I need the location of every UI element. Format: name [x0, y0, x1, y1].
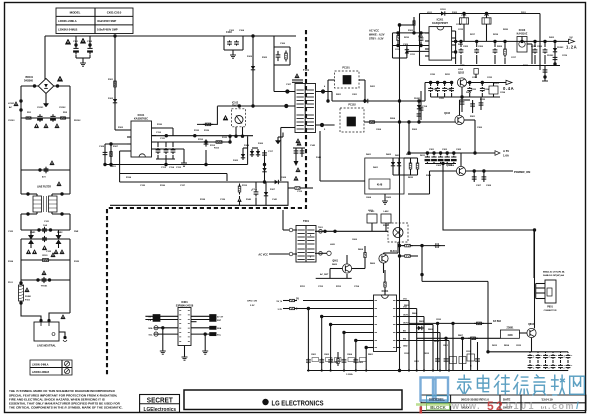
svg-text:ZD201: ZD201 [414, 98, 421, 100]
resistor R104 on drop [114, 79, 116, 82]
svg-text:R132: R132 [194, 130, 200, 132]
svg-text:C305: C305 [456, 149, 462, 151]
svg-text:C119: C119 [297, 191, 303, 193]
transistor Q102 [457, 78, 466, 87]
svg-text:F101: F101 [8, 282, 14, 284]
4148 box [369, 179, 390, 189]
T601 sec out2 [315, 252, 327, 254]
wire to inlet neutral [49, 313, 70, 319]
rail POWER_ON [466, 170, 513, 172]
aux resistors right [410, 161, 412, 164]
svg-text:D602: D602 [386, 154, 392, 156]
vert from pin2 [229, 136, 231, 142]
svg-text:L605: L605 [330, 244, 336, 246]
svg-text:CX101: CX101 [37, 107, 44, 109]
diode D201 [362, 100, 370, 102]
svg-text:D4SB60: D4SB60 [24, 79, 34, 82]
svg-text:LIVE NEUTRAL: LIVE NEUTRAL [37, 344, 56, 348]
rail 5V standby [452, 40, 566, 42]
svg-text:L203: L203 [494, 83, 500, 85]
svg-text:C233: C233 [487, 77, 493, 79]
wire Q803 emitter [531, 338, 533, 352]
svg-text:100uF/450V SMP: 100uF/450V SMP [97, 28, 118, 32]
svg-text:CONNECTOR: CONNECTOR [544, 310, 557, 312]
IC601 body [178, 308, 191, 346]
resistor above IC801 [384, 270, 386, 280]
svg-text:R217: R217 [470, 34, 476, 36]
bottom bus [307, 370, 560, 372]
svg-text:C114: C114 [169, 166, 175, 169]
feed network resistors [400, 245, 405, 247]
wire bridge right [54, 85, 70, 87]
svg-text:R101: R101 [108, 79, 114, 81]
wire rail 323 [409, 322, 492, 324]
wire snubber drop [274, 36, 290, 47]
svg-text:F201: F201 [521, 12, 527, 14]
svg-text:C803: C803 [333, 362, 339, 364]
wire IC102 bottom leads [235, 127, 237, 136]
wire ladder row6 [21, 279, 70, 281]
zener D202 [406, 48, 408, 56]
svg-text:ZNR1: ZNR1 [30, 232, 36, 234]
svg-text:D102: D102 [108, 98, 114, 100]
Q102 emitter chain [461, 87, 463, 112]
Q601 emitter ext [383, 263, 385, 273]
svg-text:C301: C301 [429, 149, 435, 151]
svg-text:R603: R603 [406, 154, 412, 156]
svg-text:R136: R136 [160, 185, 166, 187]
IC601 left glyph boxes [153, 315, 160, 318]
svg-text:R139: R139 [204, 130, 210, 132]
svg-text:C221: C221 [439, 98, 445, 100]
right wires IC801 [401, 300, 410, 302]
svg-text:R106: R106 [418, 36, 424, 38]
svg-text:Q102: Q102 [458, 72, 465, 75]
long rail AC_VCC [399, 25, 401, 371]
svg-text:C230: C230 [430, 74, 436, 76]
IC601 wires left top [145, 315, 178, 317]
svg-text:LX101: LX101 [8, 103, 15, 105]
svg-text:GND1: GND1 [110, 166, 117, 168]
comparator IC801 body [374, 295, 397, 352]
svg-text:C113: C113 [161, 167, 167, 169]
pin marks inside IC801 [375, 300, 378, 302]
ground for C101 [82, 58, 84, 60]
wire bridge to rail [44, 36, 46, 79]
svg-text:1.25VA: 1.25VA [346, 373, 353, 376]
svg-text:KA3S0765C: KA3S0765C [134, 118, 148, 121]
diode D103 on drop [114, 97, 116, 105]
svg-text:C605: C605 [386, 197, 392, 199]
series diode on loop top [273, 181, 281, 183]
inductor L201 box [460, 18, 469, 24]
svg-text:C209: C209 [537, 46, 543, 48]
svg-text:R101: R101 [42, 255, 48, 257]
svg-text:C215: C215 [458, 29, 464, 31]
svg-text:R107: R107 [113, 146, 119, 148]
svg-text:LGElectronics: LGElectronics [144, 407, 177, 413]
wire top right rail [420, 13, 541, 15]
svg-text:C810: C810 [436, 319, 442, 321]
IC201 pins left [425, 32, 429, 34]
svg-text:c: c [556, 365, 557, 367]
5V feed resistor pair [287, 300, 290, 302]
aux block box [365, 158, 404, 194]
primary gnd loop [110, 182, 288, 205]
wire gnd long 1 [105, 164, 248, 166]
svg-text:Q601: Q601 [332, 261, 338, 263]
diode D110 vertical [252, 36, 254, 106]
wire ladder row1 [21, 117, 70, 119]
svg-text:C811: C811 [414, 361, 420, 363]
svg-text:c: c [564, 365, 565, 367]
svg-text:R813: R813 [434, 341, 440, 343]
svg-text:R814: R814 [504, 344, 510, 347]
svg-text:F101: F101 [25, 299, 31, 301]
capacitor C1 row1 [39, 114, 41, 116]
svg-text:AC: AC [9, 106, 13, 109]
svg-text:C606: C606 [352, 239, 358, 241]
left wires IC801 [303, 300, 374, 302]
svg-text:C101: C101 [73, 41, 79, 43]
svg-text:WAKE : 6.2V: WAKE : 6.2V [369, 33, 385, 37]
svg-text:.com: .com [548, 401, 575, 411]
resistor above IC801 [384, 293, 386, 295]
svg-text:CKD.C510: CKD.C510 [107, 11, 122, 15]
RST divider [413, 17, 415, 33]
svg-text:R302: R302 [412, 129, 418, 131]
IC601 wires right [191, 315, 210, 317]
rail 0.4A [425, 82, 453, 84]
wire to inlet live [21, 303, 41, 319]
svg-text:Q103: Q103 [444, 112, 451, 115]
svg-text:STBY : 0.3V: STBY : 0.3V [369, 37, 384, 41]
svg-text:R807: R807 [458, 335, 464, 337]
resistor R812 [468, 337, 471, 339]
standby caps bank [460, 41, 462, 47]
wire left drop rail [419, 14, 421, 66]
wire left rail [20, 118, 22, 194]
svg-text:AC VCC: AC VCC [258, 254, 268, 257]
svg-text:5: 5 [487, 399, 494, 413]
RT CT capacitors [156, 141, 173, 143]
loop resistor R108 [239, 184, 241, 187]
svg-text:5V: 5V [569, 36, 572, 40]
IC601 wires left low [154, 327, 178, 329]
svg-text:C704: C704 [354, 285, 360, 288]
svg-text:c: c [541, 365, 542, 367]
svg-text:R805: R805 [419, 321, 425, 323]
arrestor right [56, 235, 62, 240]
svg-text:C137: C137 [180, 185, 186, 187]
isolation boundary dashed [107, 30, 306, 376]
op-amp IC101 body [131, 121, 152, 157]
left components of IC201 [393, 32, 430, 34]
svg-text:L601: L601 [368, 210, 374, 212]
svg-text:C810: C810 [404, 353, 410, 355]
svg-text:4148: 4148 [507, 334, 513, 337]
svg-text:C802: C802 [324, 354, 330, 356]
svg-text:IC102: IC102 [232, 103, 239, 105]
svg-text:1.6A: 1.6A [503, 154, 509, 158]
svg-text:L2000U-24MLA: L2000U-24MLA [32, 363, 49, 366]
resistor R139 [203, 123, 206, 125]
svg-text:C122: C122 [46, 251, 52, 253]
IC601 right rail ground [204, 334, 206, 348]
svg-text:C135: C135 [140, 185, 146, 187]
dot inlet live [39, 319, 42, 322]
svg-text:1 / 1: 1 / 1 [541, 406, 547, 410]
thermistor row6 [43, 277, 45, 279]
svg-text:C304: C304 [449, 164, 455, 167]
svg-text:C103: C103 [229, 30, 235, 32]
diode on gnd1 [264, 166, 266, 174]
svg-text:C106: C106 [280, 43, 286, 45]
svg-text:D143: D143 [316, 156, 322, 159]
svg-text:GPIO_ON: GPIO_ON [247, 301, 257, 303]
svg-text:c: c [549, 365, 550, 367]
wire PC102 out [364, 121, 455, 123]
SDA SCL glyphs [154, 326, 158, 330]
title block LG ELECTRONICS [184, 390, 402, 410]
wire AC top rail [45, 35, 296, 37]
wire ladder row4 [21, 238, 70, 240]
caps under 0.4A [430, 83, 432, 87]
AC inlet connector [34, 322, 59, 341]
loop diode [265, 190, 267, 198]
earth pin [59, 332, 65, 336]
svg-text:R801: R801 [368, 354, 374, 356]
svg-text:C204: C204 [376, 128, 382, 131]
resistor R811 [474, 322, 477, 324]
wire T601 primary up [283, 229, 289, 231]
svg-text:C142: C142 [310, 144, 316, 147]
zener right of rail [544, 66, 546, 82]
jumper box J1 [367, 214, 377, 223]
svg-text:SDA: SDA [148, 327, 153, 330]
svg-text:MODEL: MODEL [429, 397, 445, 402]
rail 12V [409, 152, 495, 154]
sec rect rail 1 [152, 127, 174, 129]
wire Q803 collector [534, 230, 536, 328]
svg-text:C205: C205 [463, 46, 469, 48]
svg-text:c: c [556, 355, 557, 357]
svg-text:IC801: IC801 [382, 290, 389, 293]
svg-text:BLOCK: BLOCK [430, 405, 446, 410]
svg-text:P801: P801 [547, 306, 553, 309]
svg-text:LG ELECTRONICS: LG ELECTRONICS [272, 398, 324, 407]
svg-text:C109: C109 [403, 44, 409, 46]
secret box [140, 395, 180, 413]
fuse F101 [19, 281, 22, 284]
cap pair group C [560, 352, 562, 353]
svg-text:C306: C306 [477, 127, 483, 129]
IC601 left rail ground [162, 328, 164, 348]
svg-text:R115: R115 [242, 185, 248, 187]
svg-text:3.3V: 3.3V [250, 305, 255, 307]
svg-text:A 5V: A 5V [503, 149, 509, 153]
svg-text:3.3V: 3.3V [278, 309, 283, 311]
svg-text:c: c [571, 365, 572, 367]
warning triangle IC102 [223, 115, 228, 120]
watermark chinese characters [457, 375, 472, 394]
svg-text:KZ B02: KZ B02 [493, 321, 502, 323]
bus junction dots [307, 369, 309, 371]
svg-text:C805: C805 [358, 362, 364, 364]
X-capacitor cluster [223, 36, 225, 50]
transistor Q103 [455, 115, 464, 124]
svg-text:c: c [549, 355, 550, 357]
svg-text:T601: T601 [318, 227, 324, 229]
svg-text:C131: C131 [160, 138, 166, 140]
wire caps rail [488, 351, 566, 353]
svg-text:R124: R124 [8, 260, 14, 263]
sec long wire A [152, 141, 231, 143]
svg-text:R125: R125 [74, 261, 80, 263]
svg-text:C303: C303 [442, 149, 448, 151]
capacitor C114 [420, 91, 422, 120]
svg-text:S04B-F4 JST(4P) 4A: S04B-F4 JST(4P) 4A [543, 274, 564, 277]
resistor R3 row5 [40, 259, 43, 261]
svg-text:T601: T601 [303, 219, 309, 223]
svg-text:ZNR: ZNR [74, 231, 79, 233]
wire to transformer pin1 [273, 65, 275, 92]
opto PC101 dashed [335, 71, 359, 88]
svg-text:c: c [564, 355, 565, 357]
svg-text:D103: D103 [440, 9, 446, 11]
svg-text:ZD801: ZD801 [507, 328, 515, 330]
transformer T101 body [295, 84, 316, 133]
zener cluster [418, 101, 420, 122]
IC801 pins left [370, 300, 374, 302]
resistor R204 [367, 121, 370, 123]
right loop to connector [443, 164, 534, 279]
svg-text:R208: R208 [497, 46, 503, 48]
svg-text:c: c [533, 365, 534, 367]
svg-text:R610: R610 [408, 177, 414, 179]
svg-text:5V_N: 5V_N [277, 301, 283, 303]
svg-text:C815: C815 [516, 345, 522, 347]
svg-text:R220: R220 [503, 29, 509, 31]
caps bottom row left [307, 358, 309, 360]
svg-text:R110: R110 [198, 139, 204, 141]
inductor L202 box [482, 18, 491, 24]
IC801 pins right [397, 300, 401, 302]
small choke box [474, 69, 478, 75]
svg-text:R204: R204 [390, 117, 396, 120]
loop capacitor C111 [255, 190, 257, 192]
capacitor C110 [152, 135, 254, 137]
svg-text:SECRET: SECRET [147, 398, 174, 405]
svg-text:D601: D601 [366, 154, 372, 156]
zener cluster right [554, 41, 556, 64]
wire bridge left [21, 85, 38, 87]
opto PC102 dashed [340, 108, 364, 132]
wire ladder row2 [21, 169, 70, 171]
svg-text:R803: R803 [404, 305, 410, 307]
capacitor C2 row1 [52, 114, 54, 116]
svg-text:C114: C114 [422, 105, 428, 108]
svg-text:R133: R133 [222, 137, 228, 139]
svg-text:R611: R611 [420, 155, 426, 157]
svg-text:BEAD-02 JST(1P) 4A: BEAD-02 JST(1P) 4A [543, 271, 565, 274]
wire rails down feed [437, 323, 439, 347]
diode D103 top [439, 13, 447, 15]
ground X-cap [232, 50, 234, 52]
svg-text:4148: 4148 [377, 184, 383, 187]
IC201 pin tie bar [455, 31, 457, 64]
model list table [30, 360, 72, 375]
svg-text:L602: L602 [384, 211, 390, 213]
caps pair above Q103 [472, 100, 474, 113]
svg-text:C216: C216 [456, 24, 462, 26]
svg-text:2: 2 [496, 399, 503, 413]
capacitor row4 middle [44, 236, 46, 238]
svg-text:C223: C223 [471, 89, 477, 91]
svg-text:PC101: PC101 [342, 67, 350, 70]
svg-text:C232: C232 [472, 77, 478, 79]
node A marks [14, 102, 19, 106]
svg-text:C110: C110 [156, 132, 162, 134]
ground aux box [384, 194, 386, 198]
svg-text:www.: www. [451, 401, 481, 411]
diode arrow right [416, 327, 424, 329]
svg-text:R103: R103 [118, 127, 124, 129]
svg-text:C141: C141 [272, 198, 278, 201]
svg-text:R113: R113 [214, 148, 220, 150]
svg-text:L101: L101 [427, 12, 433, 14]
wire sec rail A ext [400, 100, 426, 102]
svg-text:C308: C308 [486, 185, 492, 187]
transistor Q602 [342, 264, 351, 273]
svg-text:D204: D204 [466, 91, 472, 94]
svg-text:C811: C811 [443, 345, 449, 347]
svg-text:R303: R303 [426, 175, 432, 177]
IC102 dashed box [232, 109, 246, 127]
svg-text:R235: R235 [480, 99, 486, 101]
ground IC area [183, 160, 185, 163]
svg-text:D104: D104 [244, 144, 250, 147]
wire right rail [69, 118, 71, 194]
svg-text:LINE FILTER: LINE FILTER [37, 187, 51, 189]
svg-text:SDA: SDA [217, 327, 222, 330]
left rails IC801 [307, 309, 309, 371]
dot bridge left [33, 84, 36, 87]
wire ladder row3 [21, 229, 70, 231]
svg-text:R231: R231 [445, 74, 451, 76]
svg-text:D601: D601 [373, 167, 379, 169]
svg-text:R201: R201 [336, 94, 342, 96]
svg-text:ZD202: ZD202 [547, 55, 554, 57]
svg-text:R222: R222 [447, 89, 453, 91]
wire transformer pin3 [281, 127, 295, 129]
svg-text:C107: C107 [286, 84, 292, 86]
T601 sec out1 [315, 230, 388, 232]
svg-text:AC_DET: AC_DET [320, 273, 329, 276]
transformer sec pin5 [320, 123, 324, 127]
svg-text:KA5Q0765RT: KA5Q0765RT [432, 22, 448, 25]
wire ladder row5 [21, 259, 70, 261]
svg-text:0101: 0101 [506, 401, 536, 411]
svg-text:D201: D201 [370, 86, 376, 88]
svg-text:/: / [576, 401, 579, 412]
svg-text:C104: C104 [239, 29, 245, 32]
svg-text:R140: R140 [246, 198, 252, 201]
wire Q103 to rail [464, 119, 475, 121]
transformer sec pin4 [321, 89, 325, 93]
wire gnd 136 [247, 136, 249, 148]
svg-text:GND: GND [460, 65, 465, 67]
